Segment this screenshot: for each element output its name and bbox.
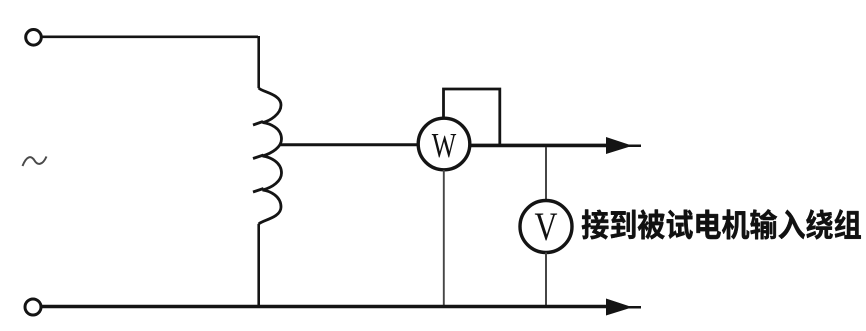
terminal circle bottom-left	[25, 299, 41, 315]
voltmeter U2 circle	[520, 201, 572, 253]
wire voltmeter down to bottom bus	[545, 253, 547, 306]
svg-text:V: V	[535, 204, 558, 249]
wire wattmeter to arrow	[470, 144, 608, 148]
char 电	[697, 210, 721, 239]
svg-text:W: W	[432, 127, 457, 165]
annotation text: 接到被试电机输入绕组	[582, 209, 861, 239]
char 组	[835, 209, 861, 239]
char 被	[638, 210, 665, 240]
arrowhead on middle output line	[606, 137, 641, 154]
char 到	[611, 210, 636, 239]
char 入	[778, 210, 805, 239]
wire vertical upper (to coil)	[257, 36, 260, 88]
wattmeter U1 circle	[418, 118, 470, 170]
arrowhead on bottom bus line	[606, 299, 641, 316]
wire top horizontal	[42, 35, 258, 38]
node junction voltmeter branch	[545, 147, 547, 200]
coil pinch ticks	[253, 122, 264, 193]
wire bottom bus	[42, 305, 608, 309]
wattmeter voltage-coil loop	[444, 89, 500, 144]
terminal circle top-left	[26, 30, 42, 46]
char 试	[667, 210, 693, 239]
char 接	[582, 210, 609, 240]
char 输	[750, 209, 777, 239]
AC source tilde	[23, 157, 47, 167]
wire tap to wattmeter	[280, 143, 419, 146]
char 绕	[806, 209, 833, 239]
wire vertical lower (coil to bottom bus)	[257, 224, 260, 306]
wire wattmeter down to bottom bus	[443, 170, 445, 305]
char 机	[722, 210, 749, 240]
inductor L1 (autotransformer winding, 4 bumps)	[259, 88, 282, 224]
